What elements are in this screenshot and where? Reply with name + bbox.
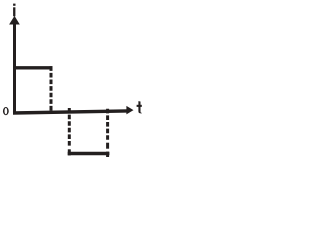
positive pulse dashed right edge [50,66,53,113]
negative pulse bottom line [68,152,110,155]
negative pulse left edge solid foot [68,149,71,155]
negative pulse dashed right edge [106,109,109,141]
negative pulse dashed left edge [68,108,71,146]
t axis [13,111,128,113]
positive pulse top line [13,66,53,69]
t axis arrowhead [126,106,133,115]
negative pulse right edge last dash [106,143,109,149]
axis label i [13,4,15,17]
negative pulse right edge corner stub [106,152,109,157]
origin label o [3,107,9,115]
i axis arrowhead [9,16,20,25]
i axis [13,21,16,115]
axis label t [137,101,142,113]
